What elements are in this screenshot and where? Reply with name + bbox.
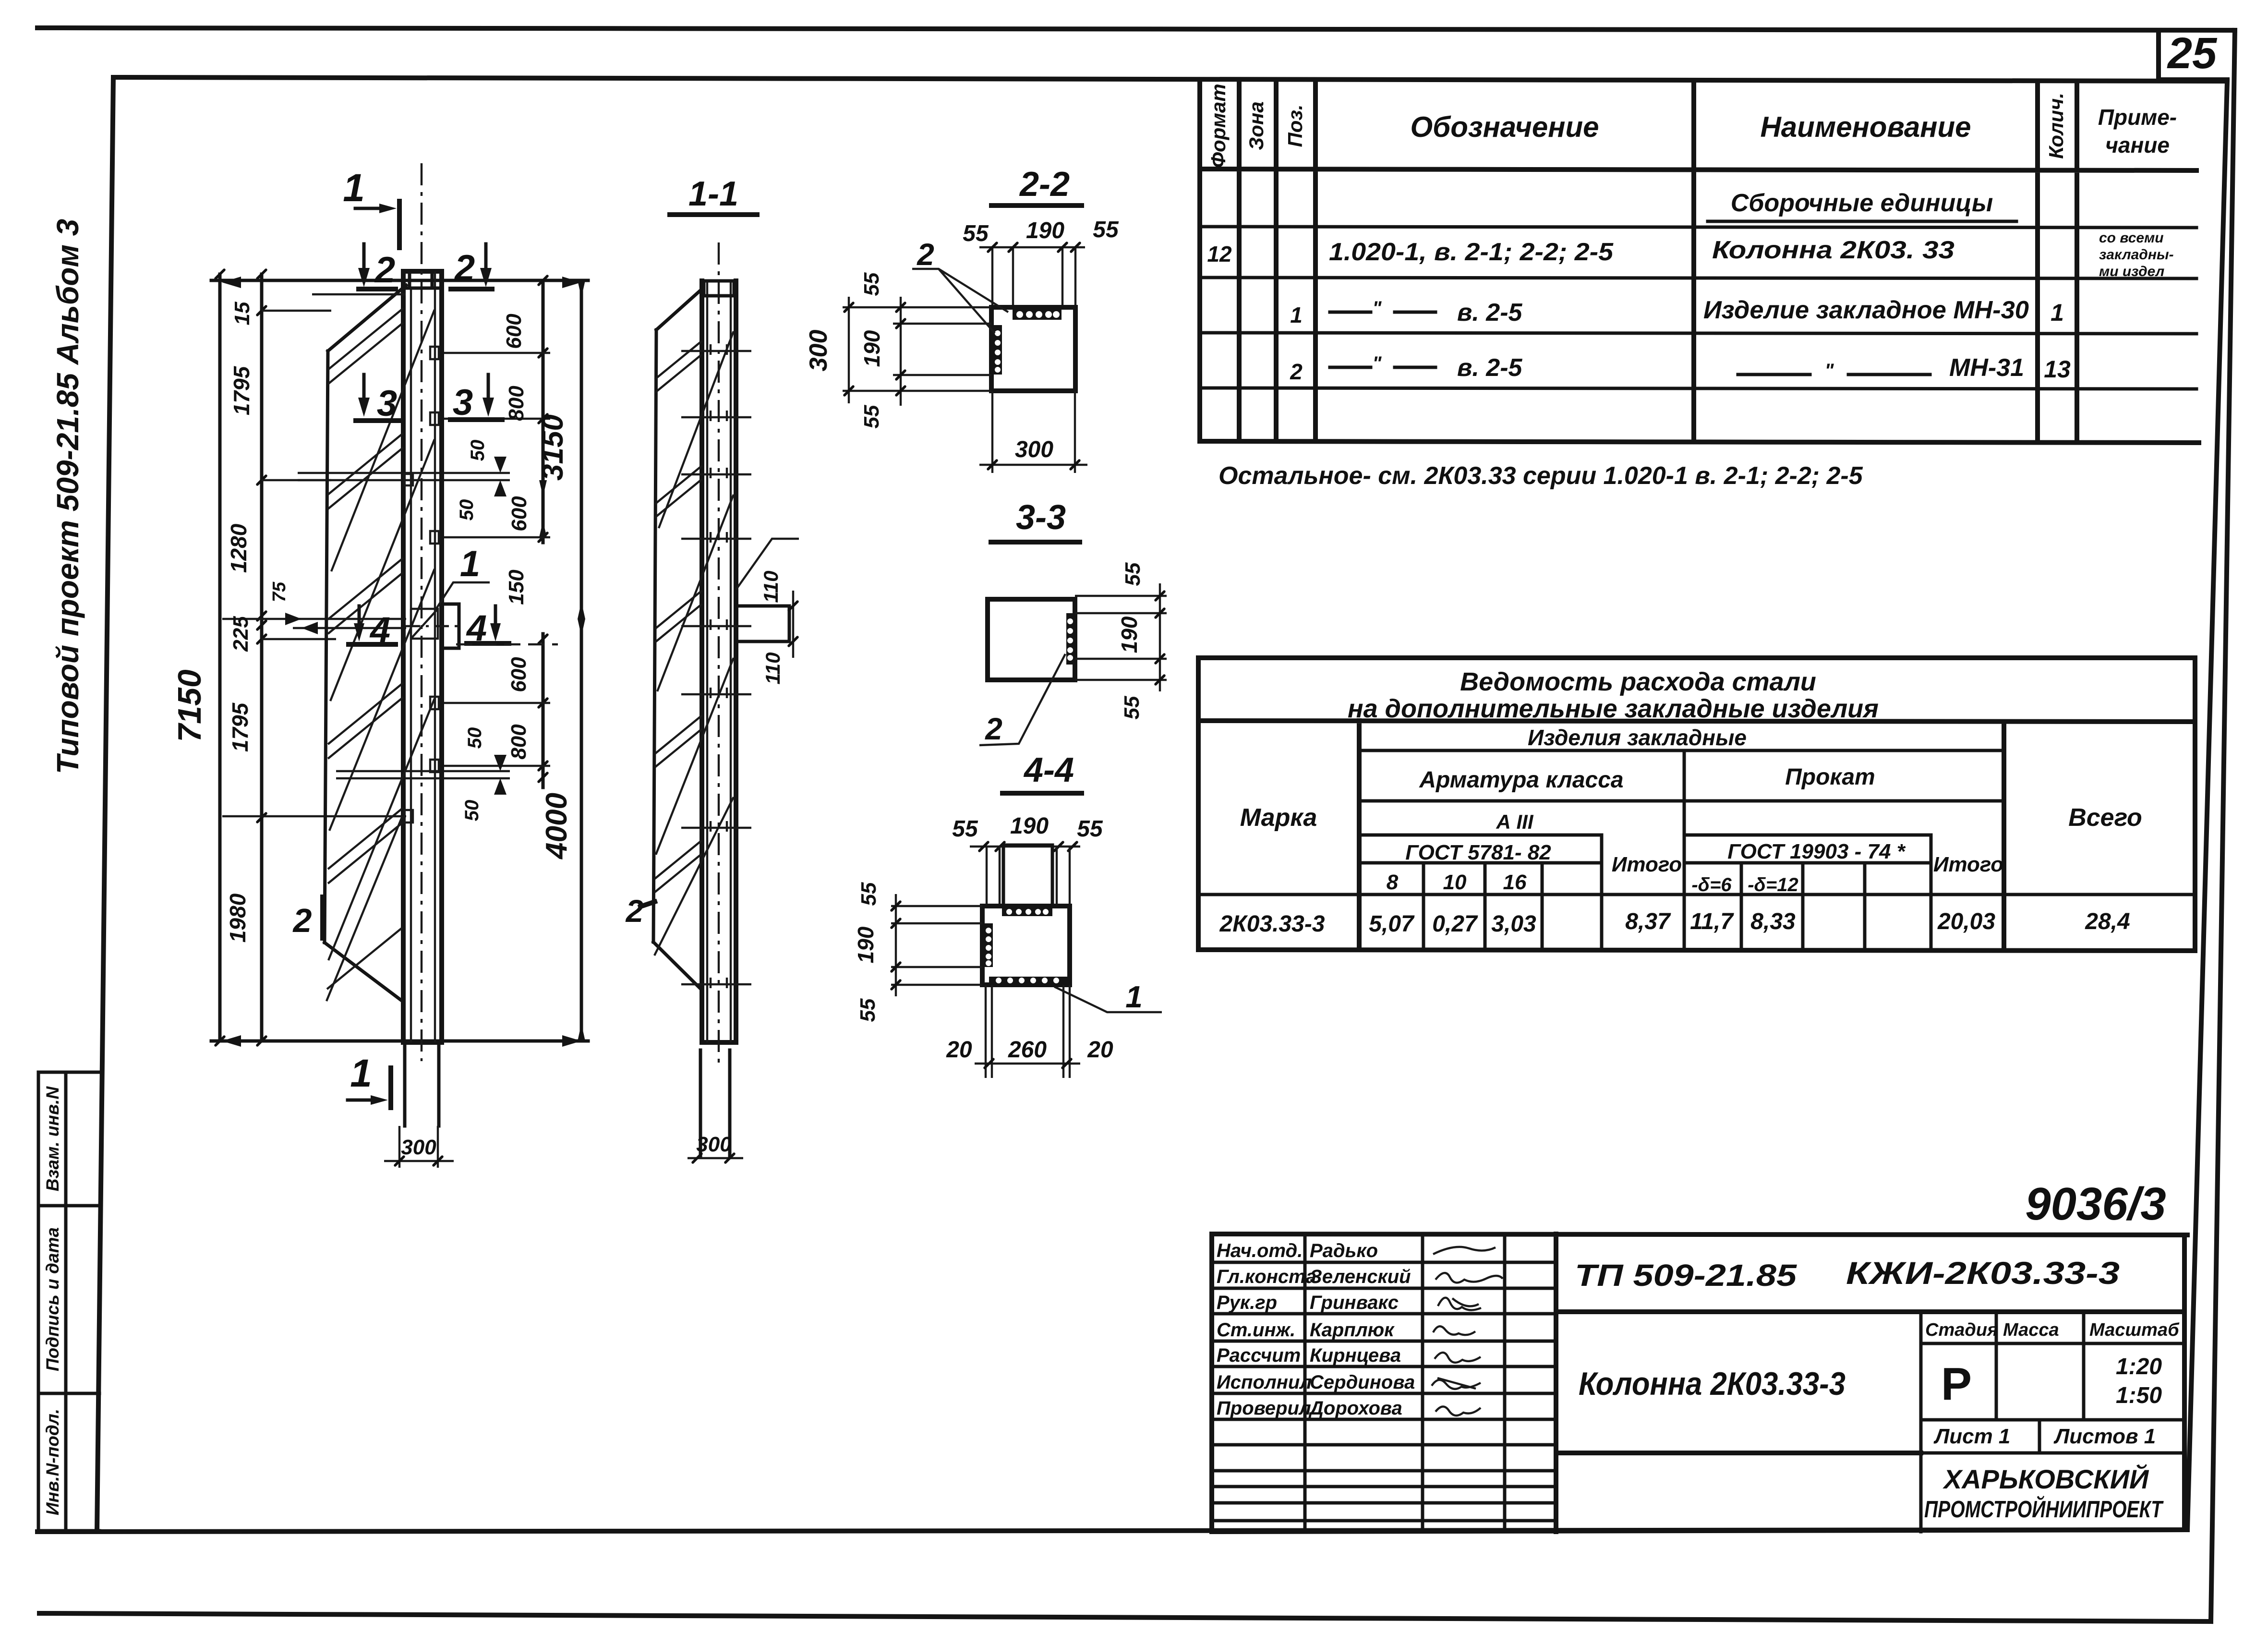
callout 1 to notch [435,544,490,611]
2-2 top embed plate MN-31 [1013,309,1062,320]
svg-text:1: 1 [2051,299,2064,326]
bottom 300 dimension 1-1 [688,1133,743,1162]
title block stadia massa masshtab [1921,1312,2184,1532]
svg-text:20,03: 20,03 [1937,909,1995,934]
svg-text:Стадия: Стадия [1925,1320,1998,1340]
svg-text:Арматура класса: Арматура класса [1419,767,1623,793]
svg-text:75: 75 [269,581,290,602]
svg-text:в. 2-5: в. 2-5 [1457,299,1523,327]
svg-text:50: 50 [467,440,488,461]
svg-text:ми издел: ми издел [2099,264,2165,279]
svg-text:55: 55 [952,816,978,842]
svg-text:со всеми: со всеми [2099,230,2164,246]
svg-text:ТП 509-21.85: ТП 509-21.85 [1575,1258,1798,1293]
svg-text:Масса: Масса [2003,1320,2059,1340]
4-4 left dimensions [853,882,982,1022]
svg-text:3: 3 [377,383,397,424]
sheet outer border top [37,28,2235,30]
steel table texts [1219,667,2142,937]
section marks 2 (top pair) [358,244,492,290]
svg-text:2: 2 [917,237,934,272]
column top face extension line [312,293,406,295]
svg-text:1: 1 [1125,980,1143,1014]
svg-text:1.020-1, в. 2-1; 2-2; 2-5: 1.020-1, в. 2-1; 2-2; 2-5 [1329,238,1614,266]
svg-text:300: 300 [1015,437,1053,462]
svg-text:Приме-: Приме- [2098,105,2177,130]
svg-text:9036/3: 9036/3 [2025,1178,2166,1230]
steel consumption table [1198,658,2195,951]
embeds with tie lines 1-1 [681,344,751,988]
svg-text:600: 600 [507,657,531,692]
svg-text:Наименование: Наименование [1760,111,1971,143]
svg-text:28,4: 28,4 [2085,909,2130,934]
column centerline [421,163,422,1061]
svg-text:Ведомость расхода стали: Ведомость расхода стали [1460,667,1816,696]
section title 4-4 [1002,751,1082,793]
title block list row [1921,1420,2184,1453]
2-2 left embed plate [993,325,1002,375]
svg-text:50: 50 [464,727,485,749]
svg-text:Кирнцева: Кирнцева [1310,1345,1401,1366]
svg-text:3: 3 [453,382,473,423]
specification table row: assembly units heading [1708,189,2016,221]
svg-text:Лист 1: Лист 1 [1933,1425,2010,1448]
svg-text:300: 300 [401,1136,436,1159]
column body 1-1 [702,281,736,1042]
column 1-1 top cap [704,281,734,296]
svg-text:ГОСТ 19903 - 74 *: ГОСТ 19903 - 74 * [1727,840,1906,863]
svg-text:13: 13 [2044,356,2071,383]
svg-text:1: 1 [350,1052,372,1095]
4-4 leader label 1 [1054,980,1162,1014]
svg-text:1:20: 1:20 [2116,1354,2162,1379]
svg-text:2К03.33-3: 2К03.33-3 [1219,911,1325,937]
handwritten signatures [1432,1247,1503,1415]
svg-text:7150: 7150 [171,669,208,742]
column body (elevation) [403,271,442,1042]
svg-text:600: 600 [502,314,526,349]
column 1-1 bottom tail [700,1050,730,1156]
svg-text:800: 800 [505,386,528,421]
title block header: TP 509-21.85 KZHI [1556,1255,2184,1312]
svg-text:300: 300 [696,1133,732,1156]
signature table labels [1217,1240,1316,1419]
sheet outer border right [2211,30,2235,1621]
4-4 bottom dimensions 20 260 20 [946,985,1113,1078]
svg-text:2: 2 [374,250,395,290]
svg-text:55: 55 [1093,217,1119,242]
svg-text:55: 55 [1121,562,1145,586]
column 1-1 centerline [718,242,720,1064]
svg-text:Инв.N-подл.: Инв.N-подл. [43,1409,62,1515]
2-2 top dimensions [963,217,1119,307]
svg-text:190: 190 [1117,616,1142,653]
svg-text:8: 8 [1387,871,1399,894]
svg-text:20: 20 [1087,1037,1113,1063]
svg-text:1795: 1795 [228,702,253,752]
svg-text:4-4: 4-4 [1023,751,1074,789]
signature table names [1308,1240,1415,1419]
svg-text:Итого: Итого [1612,853,1682,876]
section title 3-3 [991,498,1080,542]
svg-text:Дорохова: Дорохова [1308,1398,1402,1419]
console centerline dash [406,625,463,627]
svg-text:Типовой проект 509-21.85 Аль: Типовой проект 509-21.85 Альбом 3 [50,219,85,774]
600 dim arrowheads on chain C [539,480,547,537]
top dimension line [211,279,588,282]
svg-text:на дополнительные закладные: на дополнительные закладные изделия [1348,694,1879,723]
svg-text:50: 50 [456,499,477,521]
svg-text:110: 110 [761,653,784,685]
svg-text:2: 2 [985,712,1002,746]
svg-text:3150: 3150 [536,414,569,481]
svg-text:закладны-: закладны- [2099,247,2174,263]
dimension line B (segment chain) [257,270,266,1045]
svg-text:Исполнил: Исполнил [1217,1372,1312,1393]
svg-text:": " [1373,353,1382,374]
svg-text:Рук.гр: Рук.гр [1217,1292,1277,1313]
section cut mark 2 (1-1 plate bottom) [625,893,655,929]
specification table header texts [1207,84,2177,168]
extension lines to column (left chain) [222,311,406,816]
svg-text:ГОСТ 5781- 82: ГОСТ 5781- 82 [1405,841,1551,864]
recess notch left (4-4 level) [411,609,438,639]
svg-text:2: 2 [454,248,475,289]
dimension line C (600/800 chain right) [539,276,547,787]
4-4 top embed plate [1002,907,1052,916]
svg-text:Итого: Итого [1933,853,2003,876]
svg-text:МН-31: МН-31 [1949,354,2024,382]
svg-text:8,33: 8,33 [1750,909,1796,934]
svg-text:5,07: 5,07 [1369,911,1415,937]
svg-text:190: 190 [1010,813,1049,839]
svg-text:Зеленский: Зеленский [1310,1266,1411,1287]
hatched plate 1-1 [653,289,734,990]
2-2 bottom 300 dimension [979,391,1087,473]
svg-text:55: 55 [856,998,880,1022]
title block organization [1924,1464,2164,1523]
svg-text:20: 20 [946,1037,972,1063]
4-4 top dimensions [952,813,1103,851]
svg-text:в. 2-5: в. 2-5 [1457,354,1523,382]
section title 2-2 [991,165,1082,206]
svg-text:Масштаб: Масштаб [2089,1320,2180,1340]
extension lines right chain [298,353,550,778]
svg-text:Карплюк: Карплюк [1310,1319,1395,1341]
svg-text:-δ=12: -δ=12 [1748,874,1798,895]
svg-text:Нач.отд.: Нач.отд. [1217,1240,1303,1261]
svg-text:КЖИ-2К03.33-3: КЖИ-2К03.33-3 [1846,1255,2120,1291]
svg-text:Зона: Зона [1245,101,1267,150]
hatched plate (left) [325,285,434,1001]
svg-text:55: 55 [963,221,989,246]
svg-text:Поз.: Поз. [1284,105,1306,147]
svg-text:Радько: Радько [1310,1240,1378,1261]
title block signature grid [1212,1234,1556,1532]
svg-text:1795: 1795 [229,365,254,415]
right chain dimension texts [456,314,573,860]
svg-text:Рассчит: Рассчит [1217,1345,1301,1366]
svg-text:Колонна 2К03.33-3: Колонна 2К03.33-3 [1579,1366,1846,1402]
sheet number box 25 [2159,29,2227,80]
bottom 300 dimension [384,1126,454,1168]
svg-text:190: 190 [1026,218,1064,243]
svg-text:Подпись и дата: Подпись и дата [43,1227,62,1371]
svg-text:2: 2 [1290,359,1303,384]
3-3 leader label 2 [979,654,1065,746]
console bracket right (4-4 level) [442,604,459,648]
4-4 neck above console [987,845,1070,906]
svg-text:50: 50 [461,800,483,822]
svg-text:Р: Р [1941,1358,1972,1410]
svg-text:1: 1 [343,166,365,210]
svg-text:55: 55 [857,882,881,906]
4-4 bottom embed plate MN-30 [989,977,1068,984]
svg-text:Изделие закладное МН-30: Изделие закладное МН-30 [1703,296,2029,324]
svg-text:": " [1825,360,1834,381]
title block outer frame [1212,1234,2187,1532]
svg-text:16: 16 [1503,871,1527,894]
svg-text:15: 15 [230,302,254,325]
svg-text:800: 800 [507,724,531,760]
svg-text:55: 55 [860,272,883,296]
2-2 leader label 2 [912,237,1008,333]
svg-text:10: 10 [1443,871,1467,894]
3-3 column section square [988,599,1075,680]
svg-text:Обозначение: Обозначение [1410,111,1599,143]
svg-text:190: 190 [853,926,878,963]
svg-text:1-1: 1-1 [688,175,738,213]
view title 1-1 [670,175,757,215]
left chain dimension texts [171,302,290,943]
3-3 right dimensions [1075,562,1167,719]
svg-text:0,27: 0,27 [1432,911,1478,937]
svg-text:": " [1373,298,1382,319]
svg-text:225: 225 [229,616,253,652]
svg-text:600: 600 [507,496,531,532]
svg-text:Сердинова: Сердинова [1310,1372,1415,1393]
4-4 left embed plate [984,923,993,967]
svg-text:Колич.: Колич. [2045,93,2067,159]
svg-text:1280: 1280 [226,523,251,573]
embed marks on column edges [404,347,439,822]
console bracket 1-1 with 110 dims [736,539,799,684]
svg-text:150: 150 [505,569,528,605]
section mark 1 (bottom) [348,1052,391,1108]
svg-text:8,37: 8,37 [1625,909,1671,934]
svg-text:Листов 1: Листов 1 [2053,1425,2156,1448]
svg-text:ПРОМСТРОЙНИИПРОЕКТ: ПРОМСТРОЙНИИПРОЕКТ [1924,1496,2164,1523]
sheet outer border bottom [39,1613,2211,1621]
svg-text:2: 2 [292,902,312,939]
svg-text:Гринвакс: Гринвакс [1310,1292,1399,1313]
svg-text:Ст.инж.: Ст.инж. [1217,1319,1295,1341]
svg-text:4000: 4000 [540,793,573,860]
svg-text:3,03: 3,03 [1491,911,1536,937]
svg-text:Прокат: Прокат [1785,764,1875,790]
4-4 column section square [982,906,1070,985]
svg-text:А III: А III [1496,810,1533,833]
svg-text:25: 25 [2167,29,2218,78]
specification table grid [1200,81,2199,443]
svg-text:55: 55 [1077,816,1103,842]
svg-text:55: 55 [1120,696,1144,719]
svg-text:1: 1 [1290,302,1303,327]
svg-text:1:50: 1:50 [2116,1383,2162,1408]
2-2 column section square [991,307,1075,391]
specification row: MN-31 embed [1290,353,2071,384]
section 4-4 trace dashed line [456,643,558,645]
2-2 left dimensions [805,272,991,428]
svg-text:Гл.конста: Гл.конста [1217,1266,1316,1287]
top dim line terminal arrows [222,277,581,1047]
left stamp table [38,1072,99,1531]
dimension line D (3150 / 4000) [578,280,585,1041]
svg-text:260: 260 [1008,1037,1047,1063]
specification row: MN-30 embed [1290,296,2064,327]
specification row: column 2K03.33 [1207,230,2173,279]
svg-text:Изделия закладные: Изделия закладные [1528,725,1747,750]
small arrows on 50-clusters [285,457,507,795]
svg-text:Взам. инв.N: Взам. инв.N [43,1086,62,1192]
svg-text:-δ=6: -δ=6 [1691,874,1732,895]
svg-text:1: 1 [460,544,480,584]
svg-text:55: 55 [860,405,883,428]
svg-text:1980: 1980 [225,893,250,943]
section marks 4 (pair) [349,606,509,651]
svg-text:110: 110 [760,571,782,603]
svg-text:2-2: 2-2 [1019,165,1070,204]
svg-text:Формат: Формат [1207,84,1230,168]
bottom dimension line [211,1040,588,1043]
title block name cell: Kolonna [1556,1366,1921,1453]
svg-text:Марка: Марка [1240,804,1317,832]
section cut mark 2 (bottom of plate) [292,897,323,939]
svg-text:12: 12 [1207,242,1232,266]
column bottom tail [405,1042,439,1126]
svg-text:Всего: Всего [2068,804,2142,832]
section mark 1 (top) [343,166,399,248]
svg-text:Остальное- см. 2К03.33 серии 1: Остальное- см. 2К03.33 серии 1.020-1 в. … [1218,462,1863,490]
svg-text:11,7: 11,7 [1690,909,1734,934]
svg-text:3-3: 3-3 [1016,498,1066,537]
svg-text:Проверил: Проверил [1217,1398,1311,1419]
svg-text:чание: чание [2105,133,2170,157]
dimension line A (7150 overall) [216,270,224,1045]
svg-text:ХАРЬКОВСКИЙ: ХАРЬКОВСКИЙ [1942,1464,2149,1494]
svg-text:300: 300 [805,330,832,372]
svg-text:190: 190 [859,330,884,367]
section marks 3 (pair) [356,375,502,424]
svg-text:Сборочные единицы: Сборочные единицы [1731,189,1993,217]
3-3 right embed plate [1066,613,1074,665]
svg-text:2: 2 [625,893,644,929]
svg-text:Колонна 2К03. 33: Колонна 2К03. 33 [1712,236,1954,264]
column top embed detail [407,275,438,288]
